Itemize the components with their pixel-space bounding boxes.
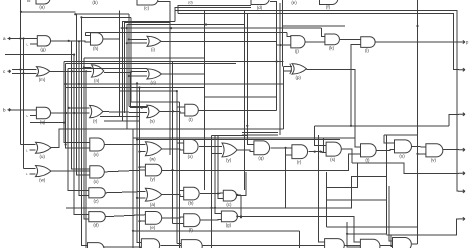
line h1163 — [100, 115, 140, 117]
line h634 — [66, 62, 236, 64]
or n in feeds — [131, 71, 147, 73]
junction j20 — [121, 27, 123, 29]
line h1018 — [131, 101, 180, 103]
line h615 — [64, 61, 284, 63]
svg-text:(v): (v) — [431, 158, 437, 163]
wire c2 to a41 in2 — [173, 222, 184, 224]
output pin p4 — [459, 148, 466, 151]
junction j25 — [319, 151, 321, 153]
svg-text:(a): (a) — [39, 5, 45, 10]
o21 in2 label — [26, 148, 28, 152]
junction j5 — [19, 37, 21, 39]
svg-text:b: b — [3, 107, 6, 112]
svg-text:(d): (d) — [257, 5, 263, 10]
line h32 — [85, 32, 287, 34]
o23 in2 stub — [140, 151, 146, 153]
output pin p7 — [459, 217, 466, 220]
o14 in1 feed — [84, 66, 92, 68]
or gate o14 — [92, 65, 104, 83]
o19 out to a20 — [160, 111, 185, 113]
junction j2 — [80, 16, 82, 18]
svg-text:(z): (z) — [93, 199, 99, 204]
junction j22 — [279, 44, 281, 46]
svg-text:(q): (q) — [40, 120, 46, 125]
bus c4 — [179, 102, 181, 248]
xor in stub2 — [284, 70, 293, 72]
or gate o18 — [90, 105, 103, 123]
pin c wire2 — [12, 72, 36, 74]
a48 in2 stub — [391, 235, 393, 246]
svg-text:(p): (p) — [296, 75, 302, 80]
a44 in2 bend — [140, 247, 142, 248]
svg-text:(c): (c) — [144, 6, 150, 11]
v386 long — [347, 135, 387, 234]
line h1353 — [212, 134, 248, 136]
trunk v20 — [20, 0, 22, 144]
junction j24 — [314, 151, 316, 153]
svg-text:(g): (g) — [40, 47, 46, 52]
svg-text:(s): (s) — [150, 119, 156, 124]
xor out to a29 — [307, 70, 361, 147]
junction j16 — [65, 112, 67, 114]
v419 long — [417, 0, 419, 244]
or gate o25 — [222, 143, 237, 163]
line h97 — [204, 96, 276, 98]
a44 out to a45 — [160, 244, 181, 246]
bus b2b — [125, 22, 170, 113]
or n in feed2 — [129, 75, 147, 77]
svg-text:(u): (u) — [40, 154, 46, 159]
and gate a35 — [89, 188, 105, 204]
bus c5 — [203, 10, 205, 190]
line h1348 — [384, 134, 418, 136]
v351 and12 feed — [351, 45, 361, 126]
svg-text:(s): (s) — [330, 157, 336, 162]
a28 out to pin p5 line — [341, 149, 352, 163]
a35 out to o36 — [105, 192, 145, 193]
a48 out riser — [412, 243, 417, 245]
a45 out long — [202, 244, 324, 246]
o21 in2 stub — [30, 149, 36, 151]
link v177 — [178, 6, 251, 14]
v389 to a48 — [389, 186, 392, 241]
svg-text:(t): (t) — [189, 117, 194, 122]
svg-text:(w): (w) — [150, 157, 157, 162]
or n out — [162, 73, 205, 75]
junction j9 — [22, 72, 24, 74]
svg-text:(f): (f) — [326, 5, 331, 10]
a37 in1 stub — [180, 189, 184, 191]
junction j17 — [73, 112, 75, 114]
line h84 — [66, 83, 284, 85]
output pin p3 — [459, 113, 466, 116]
h32 into a10 — [287, 33, 291, 37]
junction j35 — [136, 138, 138, 140]
a22 out to o23 — [104, 144, 145, 146]
junction d2173 — [236, 215, 238, 217]
xor in stub1 — [284, 65, 293, 67]
and gate a45 bottom cut — [181, 240, 202, 248]
pin3 feed line — [314, 125, 449, 127]
junction j0 — [20, 11, 22, 13]
svg-text:(d): (d) — [93, 223, 99, 228]
bus e2 — [244, 10, 246, 190]
and gate r2b — [325, 34, 340, 51]
bus d2 — [215, 135, 221, 213]
a34 out to a29 in2 — [162, 154, 361, 170]
junction j3 — [170, 27, 172, 29]
xor gate x16 — [290, 64, 307, 80]
and gate f1 (input a) — [37, 36, 50, 52]
b1 in2 stub — [30, 115, 36, 117]
bus b7 — [139, 88, 141, 248]
junction j10 — [65, 83, 67, 85]
bus b3 — [127, 25, 245, 130]
o18 out to o19 — [103, 112, 147, 113]
and gate r2a — [291, 36, 305, 54]
gray line g2 — [242, 134, 278, 136]
junction j37 — [214, 207, 216, 209]
a42 out long down to a47 in1 — [238, 216, 361, 242]
junction j19 — [172, 110, 174, 112]
gate c out stub — [158, 1, 170, 4]
F2 in1 riser — [85, 33, 90, 36]
and gate a44 bottom cut — [141, 239, 159, 248]
and gate a24 — [184, 140, 198, 160]
junction j13 — [138, 86, 140, 88]
f1 in2 stub — [30, 43, 37, 45]
top line h3 — [81, 16, 131, 18]
o21 riser long line — [51, 129, 284, 148]
f1 out to F2 — [51, 41, 91, 42]
bus a3 — [68, 69, 89, 191]
svg-text:(q): (q) — [258, 156, 264, 161]
svg-text:(r): (r) — [297, 159, 302, 164]
line h1629 to pin p5 — [352, 163, 459, 173]
and gate a27 — [292, 145, 308, 165]
input pin c — [3, 69, 11, 74]
junction j11 — [78, 83, 80, 85]
gate d out stub — [270, 2, 277, 4]
junction j27 — [416, 25, 418, 27]
or h in1 — [129, 38, 147, 40]
and gate a34 — [145, 164, 161, 181]
svg-text:(t): (t) — [365, 158, 370, 163]
svg-text:c: c — [3, 69, 6, 74]
a11 out to a12 — [340, 38, 361, 40]
junction da10 — [85, 70, 87, 72]
bus b4b — [130, 17, 132, 102]
junction do14 — [83, 66, 85, 68]
junction j7 — [73, 54, 75, 56]
bus d3 — [218, 135, 223, 198]
svg-text:(h): (h) — [93, 46, 99, 51]
bus a6 — [77, 14, 90, 175]
top line h2 — [75, 13, 129, 15]
input pin a — [3, 36, 11, 41]
label (b) of off-screen gate — [92, 0, 98, 5]
a46 out to a47 — [344, 244, 360, 246]
svg-text:(c): (c) — [226, 202, 232, 207]
a40 out to a41 — [162, 217, 184, 218]
junction j36 — [171, 169, 173, 171]
pin3 jog — [449, 114, 459, 126]
and gate b1 (input b) — [36, 107, 50, 124]
label (d2) near top — [188, 1, 192, 5]
junction j23 — [285, 147, 287, 149]
svg-text:L: L — [26, 172, 28, 176]
junction dh1 — [128, 38, 130, 40]
junction j14 — [71, 70, 73, 72]
o18 in1 stub — [69, 107, 90, 109]
bus b4 — [128, 14, 130, 106]
top border inner to p2 — [178, 14, 459, 70]
F2 out — [103, 38, 120, 40]
a27 in2 stub — [286, 154, 292, 156]
junction j28 — [246, 125, 248, 127]
svg-text:(g): (g) — [226, 223, 232, 228]
and gate (d) top edge, partially cut — [251, 0, 269, 10]
svg-text:(e): (e) — [291, 0, 297, 5]
output pin p2 — [459, 68, 466, 71]
bus e3 — [247, 14, 254, 145]
c1 out to o14 — [50, 70, 92, 72]
junction j26 — [416, 153, 418, 155]
and gate a37 — [184, 187, 200, 206]
junction da34 — [138, 166, 140, 168]
a40 in2 stub — [140, 220, 146, 222]
v323 to a28 in2 — [324, 138, 327, 153]
junction j15 — [68, 107, 70, 109]
bus b2 — [122, 21, 174, 121]
input pin b — [3, 107, 11, 112]
svg-text:L: L — [27, 114, 29, 118]
or gate o19 — [147, 105, 160, 123]
and gate (f) top edge, partially cut — [320, 0, 338, 10]
input label for gate (a) — [27, 0, 31, 3]
v347 to a47 in2 — [347, 222, 360, 247]
output pin p6 — [459, 190, 466, 193]
v326 — [325, 172, 327, 227]
svg-text:(d): (d) — [188, 1, 192, 5]
a47 out to a48 — [380, 244, 393, 246]
a34 in1 stub — [140, 166, 146, 168]
b1 out to o18 — [51, 112, 90, 114]
junction da40 — [138, 220, 140, 222]
junction d241b — [240, 215, 242, 217]
svg-text:(e): (e) — [150, 225, 156, 230]
bus f4 to a27 in2 — [285, 147, 287, 208]
and gate a29 — [361, 144, 377, 163]
and gate (a) top edge, partially cut — [36, 0, 50, 10]
line h546 — [5, 54, 74, 56]
link v174 — [175, 8, 251, 22]
top border outer to p6 — [175, 10, 459, 191]
svg-text:L: L — [26, 148, 28, 152]
a24 out to o25 — [199, 146, 222, 148]
pin c wire1 — [12, 69, 36, 71]
f1 in2 label — [27, 42, 29, 46]
a43 out to a44 — [104, 246, 141, 248]
bundle h1379 — [133, 137, 355, 139]
a26 out to a27 — [270, 147, 292, 149]
and gate a20 — [185, 104, 199, 122]
xor bracket vertical — [283, 66, 285, 129]
svg-text:(b): (b) — [188, 201, 194, 206]
line h26 — [283, 25, 345, 27]
v299 — [298, 231, 300, 248]
line h1066 — [129, 106, 147, 108]
and gate a43 bottom cut — [88, 243, 105, 248]
o36 out to a37 — [162, 195, 184, 197]
and gate a39 — [89, 212, 105, 228]
b1 in2 label — [27, 114, 29, 118]
wire c3 to a45 — [177, 243, 182, 245]
junction j8 — [19, 68, 21, 70]
junction j1 — [74, 13, 76, 15]
or h in2 — [127, 42, 147, 44]
junction j34 — [65, 143, 67, 145]
o25 out to a26 — [237, 150, 254, 151]
a33 out — [104, 170, 145, 172]
wire v20 to o21 in1 — [21, 143, 36, 145]
line h1873 — [326, 163, 357, 187]
o23 out to a24 — [162, 149, 184, 150]
wire v23 to o32 in1 — [24, 167, 36, 169]
and gate a30 — [395, 140, 412, 159]
and gate (c) top edge, partially cut — [137, 0, 158, 11]
o32 in2 stub — [30, 173, 36, 175]
line h1211 — [104, 120, 140, 122]
svg-text:p: p — [466, 40, 469, 45]
bus a1 — [64, 62, 90, 143]
bus a8 — [84, 58, 89, 219]
junction da7 — [78, 40, 80, 42]
junction j18 — [141, 107, 143, 109]
line h58 — [84, 57, 204, 59]
svg-text:L: L — [27, 42, 29, 46]
junction j30 — [276, 60, 278, 62]
o32 in2 label — [26, 172, 28, 176]
and gate a38 — [223, 190, 236, 207]
junction j6 — [68, 40, 70, 42]
svg-text:(i): (i) — [151, 47, 155, 52]
bus d1 — [211, 135, 213, 248]
pin b wire — [8, 109, 36, 111]
and gate a40 — [145, 212, 161, 231]
bus f1 — [276, 3, 278, 110]
svg-text:(l): (l) — [365, 48, 369, 53]
o25 in2 stub — [212, 152, 223, 154]
a37 out to a38 — [200, 192, 223, 195]
bus b1 — [119, 10, 121, 116]
bus a7 — [79, 41, 89, 195]
or gate o36 — [145, 188, 161, 207]
stub left row7 — [237, 194, 241, 196]
svg-text:(r): (r) — [93, 119, 98, 124]
a29 out to a30 — [376, 149, 394, 152]
bus f2 — [279, 3, 281, 135]
bus b5 — [132, 129, 134, 248]
bus a5 — [74, 55, 89, 215]
junction j12 — [136, 82, 138, 84]
junction j38 — [217, 192, 219, 194]
svg-text:(v): (v) — [93, 152, 99, 157]
and gate a28 — [326, 142, 341, 162]
svg-text:(a): (a) — [150, 202, 156, 207]
and gate r2c — [361, 37, 375, 54]
junction do36 — [136, 197, 138, 199]
or h out to a10 — [161, 41, 291, 45]
output pin p1 — [459, 40, 466, 43]
svg-text:(f): (f) — [189, 227, 194, 232]
or gate o21 — [36, 142, 52, 159]
bus b6 — [137, 83, 141, 242]
junction j31 — [210, 207, 212, 209]
a38 out riser — [237, 172, 246, 196]
trunk v23 — [23, 39, 25, 169]
line h2268 — [326, 226, 417, 228]
a20 out riser to xor — [198, 109, 276, 111]
junction d1226 — [63, 122, 65, 124]
a10 out to a11 — [305, 41, 325, 43]
a20 in1 stub — [178, 106, 185, 108]
a24 in1 stub — [177, 142, 184, 144]
svg-text:(y): (y) — [226, 158, 232, 163]
a39 out to a40 — [105, 215, 145, 217]
bus a10 — [86, 71, 87, 248]
v318 to a46 — [319, 135, 325, 242]
junction j32 — [240, 216, 242, 218]
pin p7 feed — [387, 219, 459, 235]
junction j4 — [22, 37, 24, 39]
svg-text:(x): (x) — [188, 154, 194, 159]
and gate a26 — [254, 141, 270, 161]
and gate a47 bottom cut — [360, 239, 380, 248]
bus a9 — [81, 17, 87, 245]
junction j29 — [350, 125, 352, 127]
and gate a22 — [90, 138, 105, 157]
a27 out to a28 — [308, 152, 326, 153]
a31 in2 stub — [418, 153, 426, 155]
a12 out to pin p1 — [375, 41, 459, 43]
and gate a42 — [221, 211, 237, 228]
line h685 — [68, 68, 147, 70]
line h911 — [120, 90, 177, 92]
bundle h1395 — [136, 139, 340, 141]
v314 to a28 in1 — [314, 126, 326, 146]
or gate h — [147, 36, 161, 52]
svg-text:a: a — [3, 36, 6, 41]
junction dh2 — [126, 42, 128, 44]
svg-text:(m): (m) — [39, 77, 46, 82]
and gate F2 — [91, 33, 103, 51]
svg-text:(k): (k) — [329, 46, 335, 51]
junction j21 — [126, 27, 128, 29]
bus c3 — [176, 91, 178, 243]
svg-text:(x): (x) — [93, 179, 99, 184]
o14 out jog to o19 — [104, 73, 147, 108]
line h231 — [133, 230, 299, 232]
long line h2078 L — [66, 177, 387, 208]
junction dn1 — [130, 70, 132, 72]
svg-text:(j): (j) — [295, 49, 299, 54]
line h28 — [121, 27, 322, 29]
and gate a46 bottom cut — [325, 239, 345, 248]
and gate a41 — [184, 214, 200, 233]
bus f3 — [282, 0, 284, 66]
a41 out to a42 — [200, 219, 221, 222]
